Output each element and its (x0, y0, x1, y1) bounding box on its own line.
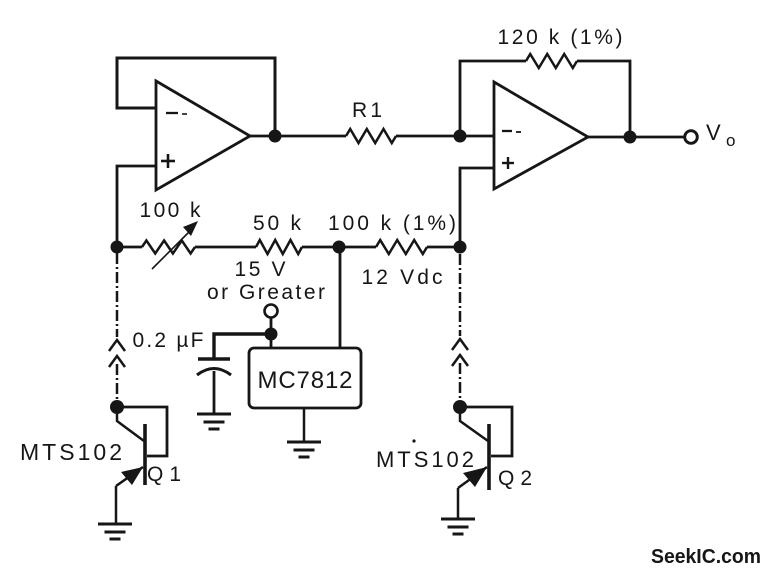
wire U2 output (588, 136, 684, 139)
svg-text:100 k: 100 k (140, 199, 202, 222)
node U2 - input junction (454, 130, 467, 143)
node middle rail junction (333, 241, 346, 254)
svg-text:0.2 µF: 0.2 µF (133, 329, 204, 352)
ground MC7812 (287, 442, 321, 457)
wire U1 output (250, 135, 346, 138)
wire left sense line (dash-dot) (109, 253, 125, 402)
node U2 output junction (624, 131, 637, 144)
svg-text:SeekIC.com: SeekIC.com (651, 545, 761, 568)
ground capacitor (197, 414, 231, 429)
resistor R1 (346, 99, 396, 143)
potentiometer 100 k (140, 199, 202, 269)
wire 15V node to MC7812 input (270, 334, 273, 348)
wire MC7812 ground pin (303, 408, 306, 442)
capacitor C1 0.2 uF (133, 329, 232, 414)
svg-text:15 V: 15 V (235, 258, 286, 281)
resistor 120 k (1%) feedback (460, 26, 630, 136)
wire right sense line (dash-dot) (452, 254, 468, 402)
transistor Q2 MTS102 (376, 407, 532, 519)
wire 12V rail to MC7812 output (339, 247, 342, 348)
svg-text:V: V (706, 120, 721, 145)
output terminal Vo (685, 120, 736, 150)
terminal 15V input (265, 305, 278, 335)
node right rail junction (454, 241, 467, 254)
resistor 50 k (253, 212, 302, 254)
svg-text:50 k: 50 k (253, 212, 302, 235)
node 15V junction (265, 328, 278, 341)
svg-text:o: o (726, 131, 735, 150)
node U1 output junction (269, 130, 282, 143)
svg-text:R 1: R 1 (352, 99, 382, 122)
op-amp U2 (494, 82, 588, 189)
transistor Q1 MTS102 (20, 407, 181, 524)
ground Q2 emitter (441, 519, 475, 534)
voltage regulator U3 MC7812 (249, 348, 361, 408)
wire U2 + input (460, 168, 494, 247)
svg-text:MC7812: MC7812 (258, 367, 353, 394)
node left rail junction (111, 241, 124, 254)
wire U1 feedback loop (117, 58, 275, 136)
node Q1 collector junction (110, 400, 124, 414)
wire U1 + input (117, 166, 156, 247)
node Q2 collector junction (453, 400, 467, 414)
wire 15V node to capacitor (214, 334, 271, 358)
ground Q1 emitter (98, 524, 132, 539)
wire middle rail (117, 246, 142, 249)
wire R1 to U2 inverting input (396, 135, 494, 138)
label 15 V or Greater (207, 258, 325, 304)
resistor 100 k (1%) (328, 212, 456, 254)
op-amp U1 (156, 81, 250, 190)
